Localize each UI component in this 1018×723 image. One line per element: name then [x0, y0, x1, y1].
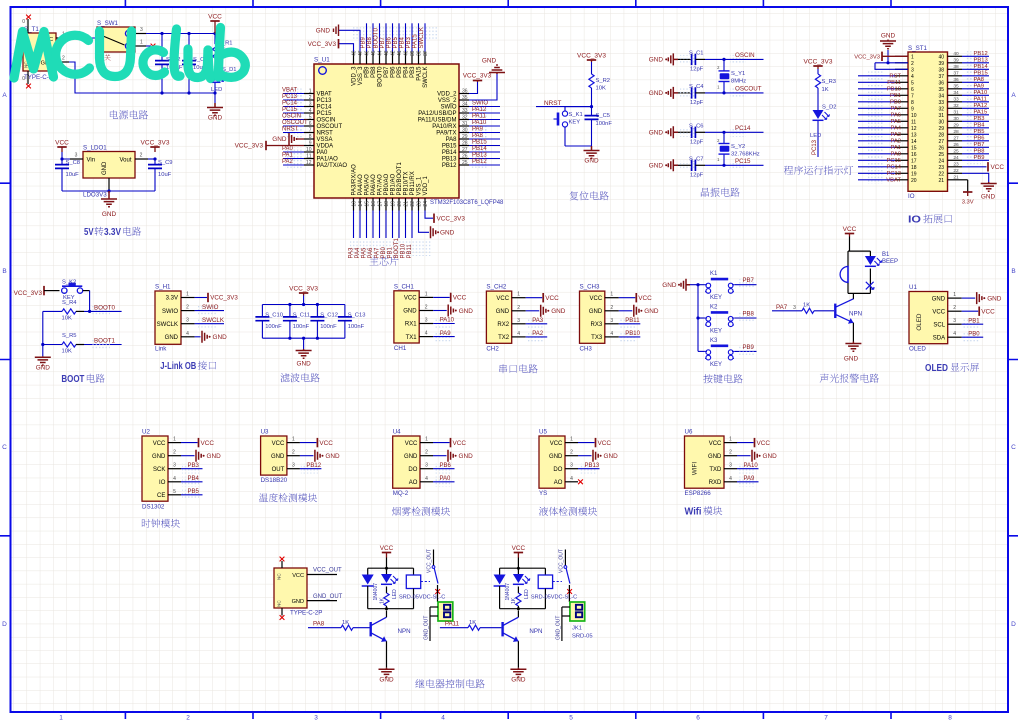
svg-text:U3: U3 [261, 429, 269, 436]
svg-text:VBAT: VBAT [317, 92, 333, 98]
svg-text:S_C9: S_C9 [158, 160, 173, 166]
svg-text:VBAT: VBAT [282, 88, 298, 94]
transistor Q1 NPN alarm [834, 304, 836, 318]
svg-text:PA6: PA6 [368, 247, 374, 259]
svg-text:DS1302: DS1302 [142, 503, 165, 510]
net SWIO at H1 pin2 [195, 310, 224, 312]
svg-text:VCC: VCC [55, 139, 69, 146]
svg-text:NPN: NPN [849, 311, 862, 318]
svg-text:LED: LED [810, 133, 821, 139]
pin 2 of S_T1 [56, 61, 69, 63]
diode 1N4007 [367, 568, 369, 574]
svg-text:PB4: PB4 [404, 66, 410, 78]
svg-text:ESP8266: ESP8266 [685, 490, 712, 497]
svg-text:35: 35 [953, 84, 959, 90]
svg-text:GND: GND [102, 211, 117, 218]
svg-text:10K: 10K [62, 316, 72, 322]
pin 0 bottom of S_T1 [27, 71, 29, 84]
svg-text:PB13: PB13 [974, 57, 988, 63]
svg-text:GND: GND [316, 28, 331, 35]
svg-text:GND: GND [844, 356, 859, 363]
svg-text:1: 1 [570, 437, 573, 443]
svg-text:PB15: PB15 [974, 70, 988, 76]
chip left pin 7 NRST [304, 132, 314, 134]
svg-text:2: 2 [140, 153, 143, 159]
svg-text:15: 15 [911, 145, 917, 151]
svg-text:6: 6 [696, 715, 700, 722]
svg-text:1: 1 [517, 292, 520, 298]
ground symbol of power block [207, 103, 223, 115]
svg-text:3: 3 [173, 463, 176, 469]
svg-text:18: 18 [911, 165, 917, 171]
svg-text:2: 2 [309, 95, 312, 101]
svg-text:13: 13 [911, 132, 917, 138]
net SWCLK at H1 pin3 [195, 323, 224, 325]
chip right pin 31 PA10/RX [459, 125, 469, 127]
svg-text:PA11: PA11 [974, 96, 987, 102]
svg-text:3: 3 [309, 101, 312, 107]
svg-text:VSS_2: VSS_2 [438, 98, 457, 104]
part S_CH3 [580, 291, 605, 343]
chip left pin 11 PA1/AO [304, 158, 314, 160]
svg-text:GND_OUT: GND_OUT [555, 616, 561, 640]
svg-text:KEY: KEY [710, 329, 722, 335]
svg-text:PA1: PA1 [282, 153, 294, 159]
svg-text:Link: Link [155, 346, 167, 353]
ground symbol boot [42, 345, 44, 357]
svg-text:PB3: PB3 [974, 116, 985, 122]
svg-text:S_U1: S_U1 [314, 57, 330, 64]
svg-text:NC: NC [277, 600, 282, 607]
svg-text:PA9/TX: PA9/TX [436, 131, 456, 137]
svg-text:PA11: PA11 [445, 621, 460, 628]
key K2 [698, 317, 705, 319]
diode 1N4007 [499, 568, 501, 574]
relay indicator LED [386, 568, 388, 574]
svg-text:PB4: PB4 [974, 122, 986, 128]
svg-text:0: 0 [22, 76, 25, 82]
svg-text:NPN: NPN [529, 628, 542, 635]
svg-text:VBAT: VBAT [886, 177, 901, 183]
svg-text:CH3: CH3 [580, 345, 593, 352]
svg-text:PA2: PA2 [890, 138, 901, 144]
svg-text:PA0: PA0 [282, 146, 294, 152]
3.3V at ST1 pin21 [962, 179, 968, 181]
pin bottom of output connector [281, 608, 283, 616]
svg-text:PB5: PB5 [188, 489, 200, 495]
svg-text:PB10/TX: PB10/TX [404, 171, 410, 195]
svg-text:S_Y1: S_Y1 [731, 71, 745, 77]
svg-text:VCC_OUT: VCC_OUT [313, 568, 342, 574]
wire VDD_1 to VCC_3V3 bottom [425, 211, 433, 219]
svg-text:PC15: PC15 [282, 107, 298, 113]
svg-text:SWIO: SWIO [162, 309, 178, 315]
svg-text:PB8: PB8 [367, 36, 373, 48]
svg-text:PB5: PB5 [393, 36, 399, 48]
svg-text:LED: LED [211, 87, 222, 93]
svg-text:SCK: SCK [153, 467, 165, 473]
svg-text:SWCLK: SWCLK [423, 67, 429, 88]
svg-text:B: B [2, 268, 6, 275]
svg-text:PA9: PA9 [974, 83, 985, 89]
svg-text:OSCIN: OSCIN [282, 114, 301, 120]
svg-text:3: 3 [729, 463, 732, 469]
ST1 pin 9 row [895, 107, 908, 109]
wire to net PC14 [680, 128, 696, 137]
pin 3 of S_SW1 [135, 33, 146, 35]
relay switch contact [564, 550, 566, 566]
ground symbol below chip [431, 226, 436, 238]
svg-text:PB1/AO: PB1/AO [391, 173, 397, 195]
svg-text:PC15: PC15 [317, 111, 333, 117]
svg-text:GND: GND [459, 453, 474, 460]
chip right pin 26 PB13 [459, 158, 469, 160]
svg-text:PB11: PB11 [625, 318, 640, 324]
svg-text:GND: GND [881, 33, 896, 40]
svg-text:2: 2 [186, 715, 190, 722]
svg-text:PC14: PC14 [886, 164, 901, 170]
svg-text:SWCLK: SWCLK [419, 27, 425, 48]
ST1 pin 2 row [895, 62, 908, 64]
svg-text:2: 2 [570, 450, 573, 456]
svg-text:36: 36 [938, 80, 944, 86]
svg-text:3: 3 [793, 305, 796, 311]
chip left pin 4 PC15 [304, 112, 314, 114]
svg-text:VCC: VCC [512, 545, 526, 552]
svg-text:D: D [1011, 621, 1016, 628]
ST1 pin 5 row [895, 81, 908, 83]
svg-text:U4: U4 [393, 429, 401, 436]
chip bottom pin 20 PB2/BOOT1 [398, 198, 400, 211]
relay emitter to ground [517, 641, 519, 668]
chip left pin 2 PC13 [304, 99, 314, 101]
svg-text:1K: 1K [379, 597, 385, 604]
svg-text:4: 4 [186, 331, 189, 337]
chip left pin 12 PA2/TX/AO [304, 164, 314, 166]
svg-text:26: 26 [462, 153, 468, 159]
chip left pin 3 PC14 [304, 106, 314, 108]
transistor NPN relay driver [370, 622, 372, 636]
svg-text:SWIO: SWIO [441, 105, 457, 111]
LED S_D1 [210, 72, 221, 81]
svg-text:28: 28 [953, 129, 959, 135]
part U3 [261, 436, 287, 475]
ST1 pin 1 row [895, 55, 908, 57]
svg-text:PB4: PB4 [188, 476, 200, 482]
svg-text:PB0: PB0 [968, 331, 980, 337]
ST1 pin 11 row [895, 120, 908, 122]
svg-text:30: 30 [938, 119, 944, 125]
svg-text:VCC: VCC [208, 13, 222, 20]
svg-text:1K: 1K [342, 620, 349, 626]
svg-text:PB6: PB6 [391, 66, 397, 78]
svg-text:20: 20 [911, 178, 917, 184]
svg-text:VCC_3V3: VCC_3V3 [235, 143, 264, 150]
svg-text:PA15: PA15 [412, 34, 418, 49]
pin GND of output connector [307, 600, 337, 602]
svg-text:21: 21 [403, 201, 409, 207]
svg-text:S_D2: S_D2 [822, 105, 837, 111]
svg-text:VCC_3V3: VCC_3V3 [141, 139, 170, 146]
svg-text:28: 28 [938, 132, 944, 138]
svg-text:PA9: PA9 [744, 476, 756, 482]
svg-text:15: 15 [364, 201, 370, 207]
chip top pin 47 VSS_3 [359, 52, 361, 65]
svg-text:PB12: PB12 [974, 51, 988, 57]
wire VCC to Vin [62, 152, 70, 159]
svg-text:GND: GND [440, 230, 455, 237]
net label PB8 [738, 313, 754, 322]
power VCC at ST1 pin23 [962, 166, 987, 168]
svg-text:27: 27 [462, 147, 468, 153]
svg-text:PA6: PA6 [890, 112, 901, 118]
capacitor S_C3 10uF [188, 34, 190, 61]
dotted marks above chip [352, 26, 438, 40]
chip top pin 46 PB9 [366, 52, 368, 65]
chip top pin 39 PB3 [411, 52, 413, 65]
svg-text:PB7: PB7 [380, 36, 386, 48]
chip top pin 38 PA15 [418, 52, 420, 65]
svg-text:SRD-05: SRD-05 [572, 634, 593, 640]
svg-text:S_R4: S_R4 [62, 300, 77, 306]
svg-text:39: 39 [410, 50, 416, 56]
chip left pin 10 PA0 [304, 151, 314, 153]
svg-text:28: 28 [462, 140, 468, 146]
svg-text:1: 1 [59, 715, 63, 722]
svg-text:47: 47 [358, 50, 364, 56]
svg-text:40: 40 [403, 50, 409, 56]
chip top pin 42 PB6 [392, 52, 394, 65]
wire T1 pin1 to switch [69, 37, 97, 39]
svg-text:VCC: VCC [201, 440, 215, 447]
svg-text:KEY: KEY [710, 362, 722, 368]
svg-text:VCC: VCC [292, 573, 304, 579]
svg-text:42: 42 [390, 50, 396, 56]
svg-text:BOOT0: BOOT0 [94, 304, 116, 311]
svg-text:2: 2 [173, 450, 176, 456]
connector TYPE-C-2P output [274, 568, 307, 608]
svg-text:PA8: PA8 [446, 137, 458, 143]
svg-text:1N4007: 1N4007 [373, 583, 379, 601]
crystal S_Y2 32.768KHz [723, 132, 725, 143]
svg-text:S_K1: S_K1 [569, 112, 583, 118]
svg-text:4: 4 [173, 476, 176, 482]
svg-text:PA0: PA0 [440, 476, 452, 482]
svg-text:S_H1: S_H1 [155, 284, 171, 291]
svg-text:PB8: PB8 [743, 312, 755, 318]
svg-text:2: 2 [517, 305, 520, 311]
svg-text:PB10: PB10 [401, 243, 407, 258]
capacitor S_C8 10uF [61, 159, 63, 165]
svg-text:1K: 1K [469, 620, 476, 626]
svg-text:PA3/RX/AO: PA3/RX/AO [352, 164, 358, 196]
svg-text:10: 10 [911, 113, 917, 119]
svg-text:34: 34 [953, 90, 959, 96]
svg-text:TX2: TX2 [498, 335, 510, 341]
svg-text:CE: CE [157, 493, 165, 499]
svg-text:GND: GND [649, 90, 664, 97]
power VCC_3V3 below chip [433, 214, 435, 223]
wire VDD_3 to VCC_3V3 top [339, 44, 354, 52]
svg-text:GND_OUT: GND_OUT [424, 616, 430, 640]
svg-text:B1: B1 [882, 252, 890, 258]
svg-text:VCC: VCC [496, 296, 509, 302]
svg-text:PA0: PA0 [890, 151, 901, 157]
svg-text:4: 4 [425, 476, 428, 482]
svg-text:PB0: PB0 [890, 99, 901, 105]
svg-text:GND: GND [152, 454, 166, 460]
no-connect on SW1 pin1 [146, 45, 151, 47]
chip left pin 8 VSSA [304, 138, 314, 140]
capacitor S_C1 12pF [678, 58, 692, 60]
svg-text:VCC_3V3: VCC_3V3 [289, 285, 318, 292]
pin 1 of S_SW1 [135, 45, 146, 47]
pin 1 of S_T1 [56, 37, 69, 39]
svg-text:KEY: KEY [569, 120, 581, 126]
capacitor S_C5 100nF [591, 107, 593, 116]
svg-text:PC15: PC15 [886, 158, 901, 164]
svg-text:30: 30 [462, 127, 468, 133]
svg-text:1: 1 [911, 54, 914, 60]
svg-text:2: 2 [62, 56, 65, 62]
svg-text:29: 29 [462, 134, 468, 140]
svg-text:SDA: SDA [933, 335, 945, 341]
wire LED to PC13 [817, 121, 819, 157]
svg-text:A: A [1011, 92, 1016, 99]
svg-text:2: 2 [953, 305, 956, 311]
svg-text:23: 23 [953, 162, 959, 168]
resistor S_R3 1K [817, 69, 819, 74]
svg-text:20: 20 [397, 201, 403, 207]
svg-text:VSS_1: VSS_1 [417, 176, 423, 195]
buzzer B1 [847, 251, 849, 266]
chip bottom pin 22 PB11/RX [411, 198, 413, 211]
svg-text:8: 8 [911, 100, 914, 106]
title liquid module [539, 507, 597, 516]
svg-text:100nF: 100nF [265, 324, 282, 330]
ground rail of LDO [62, 190, 155, 192]
svg-text:11: 11 [306, 153, 311, 159]
svg-text:S_CH1: S_CH1 [394, 283, 415, 290]
svg-text:PB9: PB9 [365, 66, 371, 78]
ST1 pin 19 row [895, 172, 908, 174]
svg-text:45: 45 [371, 50, 377, 56]
svg-text:PA3: PA3 [890, 132, 901, 138]
svg-text:48: 48 [351, 50, 357, 56]
svg-text:SWIO: SWIO [472, 101, 488, 107]
filter bottom rail [262, 337, 345, 339]
svg-text:VCC: VCC [843, 226, 857, 233]
svg-text:PA3: PA3 [349, 247, 355, 259]
svg-text:37: 37 [953, 71, 959, 77]
relay base resistor 1K [440, 627, 468, 629]
svg-text:39: 39 [953, 58, 959, 64]
svg-text:GND: GND [662, 282, 677, 289]
svg-text:PB15: PB15 [442, 144, 457, 150]
ground symbol of LDO [101, 191, 117, 207]
svg-text:8: 8 [309, 134, 312, 140]
svg-text:4: 4 [953, 331, 956, 337]
svg-text:3.3V: 3.3V [104, 227, 121, 238]
svg-text:PC14: PC14 [735, 125, 751, 132]
svg-text:PA7: PA7 [890, 106, 901, 112]
svg-text:26: 26 [938, 145, 944, 151]
title alarm circuit [820, 374, 879, 383]
ground symbol reset [584, 146, 600, 158]
svg-text:VCC: VCC [991, 164, 1005, 171]
svg-text:OSCIN: OSCIN [317, 118, 336, 124]
svg-text:PA12/USB/DP: PA12/USB/DP [418, 111, 456, 117]
relay resistor 1K vertical [517, 587, 519, 594]
svg-text:17: 17 [911, 158, 917, 164]
svg-text:PC14: PC14 [317, 105, 333, 111]
svg-text:10K: 10K [62, 349, 72, 355]
svg-text:VCC: VCC [757, 440, 771, 447]
chip right pin 28 PB15 [459, 145, 469, 147]
svg-text:GND: GND [981, 194, 996, 201]
svg-text:31: 31 [953, 110, 959, 116]
svg-text:PB6: PB6 [386, 36, 392, 48]
resistor S_R4 10K [43, 310, 62, 312]
svg-text:GND: GND [404, 454, 418, 460]
chip right pin 33 PA12/USB/DP [459, 112, 469, 114]
svg-text:25: 25 [462, 160, 468, 166]
svg-text:Vout: Vout [119, 158, 131, 164]
svg-text:3: 3 [570, 463, 573, 469]
ST1 pin 13 row [895, 133, 908, 135]
svg-text:VCC: VCC [153, 441, 166, 447]
svg-text:GND: GND [213, 334, 228, 341]
svg-text:PA10: PA10 [472, 120, 487, 126]
svg-text:BOOT0: BOOT0 [373, 27, 379, 48]
svg-text:SWCLK: SWCLK [202, 317, 225, 324]
capacitor S_C7 12pF [678, 164, 692, 166]
svg-text:GND: GND [208, 115, 223, 122]
svg-text:30: 30 [953, 116, 959, 122]
svg-text:VCC: VCC [981, 308, 995, 315]
pin VCC of output connector [307, 574, 337, 576]
svg-text:OLED: OLED [916, 313, 923, 331]
svg-text:BOOT1: BOOT1 [394, 237, 400, 258]
svg-text:7: 7 [824, 715, 828, 722]
title smoke module [392, 507, 450, 516]
relay output wires GND_OUT [562, 606, 570, 608]
wire ST1 pin3 [875, 63, 908, 70]
svg-text:14: 14 [911, 139, 917, 145]
relay bridge rails [500, 567, 546, 569]
svg-text:GND: GND [708, 454, 722, 460]
regulator S_LDO1 LDO3V3 [83, 152, 135, 179]
title relay control circuit [415, 679, 484, 688]
svg-text:PA8: PA8 [472, 133, 484, 139]
svg-text:U1: U1 [909, 284, 917, 291]
pin header S_ST1 40pin [908, 52, 948, 191]
svg-text:NRST: NRST [544, 100, 561, 107]
svg-text:8MHz: 8MHz [731, 79, 746, 85]
svg-text:PB0: PB0 [381, 246, 387, 258]
svg-text:2: 2 [186, 305, 189, 311]
svg-text:PA10: PA10 [440, 318, 455, 324]
svg-text:GND: GND [649, 163, 664, 170]
net label PB7 [738, 279, 754, 288]
svg-text:PC13: PC13 [812, 139, 818, 155]
svg-text:3: 3 [911, 67, 914, 73]
svg-text:24: 24 [423, 201, 429, 207]
svg-text:Vin: Vin [87, 158, 96, 164]
part S_CH2 [486, 291, 511, 343]
relay switch contact [433, 550, 435, 566]
svg-text:C: C [2, 444, 7, 451]
